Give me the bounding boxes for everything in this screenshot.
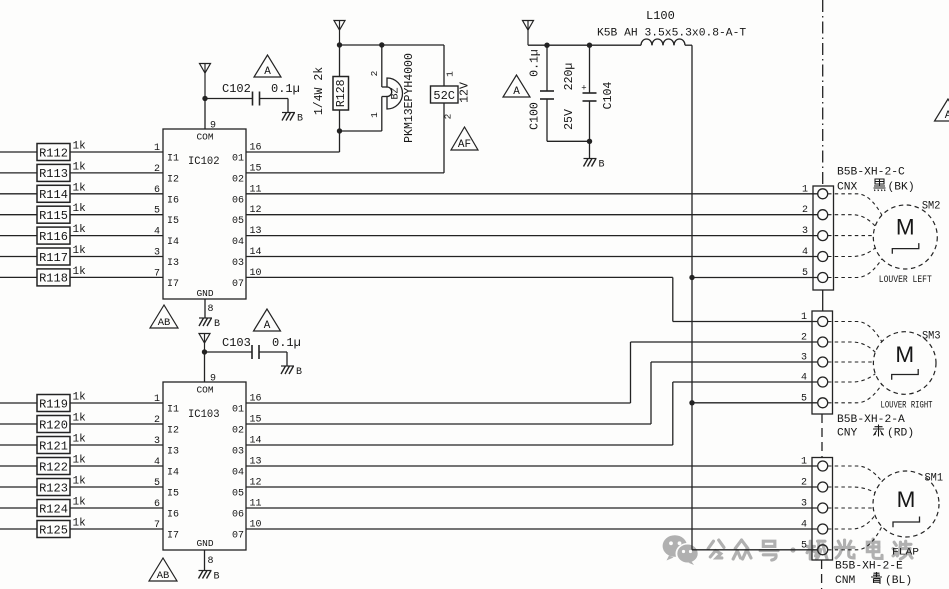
label pin 2 of 52C xyxy=(443,113,454,119)
svg-text:R121: R121 xyxy=(39,439,68,453)
svg-text:I5: I5 xyxy=(167,216,179,227)
label 1k of R124 xyxy=(73,497,87,509)
inductor L100 xyxy=(641,39,692,45)
label 1k of R114 xyxy=(73,182,87,194)
CNY pin 5 number xyxy=(801,393,807,404)
svg-text:LOUVER RIGHT: LOUVER RIGHT xyxy=(881,401,933,412)
svg-text:2: 2 xyxy=(369,70,380,76)
ground C104 xyxy=(584,159,605,171)
wire resistor R114 to IC102 pin 6 xyxy=(70,193,163,195)
svg-text:04: 04 xyxy=(232,468,244,479)
IC103 pin label 02 xyxy=(232,415,262,437)
svg-text:I2: I2 xyxy=(167,174,179,185)
svg-text:R119: R119 xyxy=(39,397,68,411)
label 1k of R123 xyxy=(73,476,87,488)
IC102 pin label I1 xyxy=(154,143,179,165)
connector CNX xyxy=(813,186,834,290)
svg-text:GND: GND xyxy=(196,538,213,549)
svg-text:5: 5 xyxy=(801,393,807,404)
label CNY red xyxy=(837,425,914,440)
svg-text:1k: 1k xyxy=(73,455,87,467)
svg-text:PKM13EPYH4000: PKM13EPYH4000 xyxy=(403,53,416,143)
wire input row to resistor R125 xyxy=(0,528,37,530)
IC103 pin label I2 xyxy=(154,415,179,437)
watermark text guang xyxy=(835,540,854,558)
wire IC102 output 04 to CNX pin 3 xyxy=(246,235,818,237)
CNY pin 4 number xyxy=(801,373,807,384)
wire input row to resistor R113 xyxy=(0,172,37,174)
svg-text:AF: AF xyxy=(458,139,471,151)
svg-text:I3: I3 xyxy=(167,258,179,269)
IC103 pin label I7 xyxy=(154,520,179,542)
svg-text:I7: I7 xyxy=(167,531,179,542)
wire resistor R121 to IC103 pin 3 xyxy=(70,444,163,446)
svg-text:R116: R116 xyxy=(39,230,68,244)
note triangle AF near 52C xyxy=(451,127,478,151)
svg-text:K5B AH 3.5x5.3x0.8-A-T: K5B AH 3.5x5.3x0.8-A-T xyxy=(597,28,746,40)
node C100 top junction xyxy=(544,43,549,48)
svg-text:I6: I6 xyxy=(167,510,179,521)
svg-text:I4: I4 xyxy=(167,468,179,479)
label LOUVER LEFT xyxy=(879,275,932,286)
label 1k of R113 xyxy=(73,161,87,173)
IC102 pin label 06 xyxy=(232,184,262,206)
svg-text:4: 4 xyxy=(801,520,807,531)
resistor R115 xyxy=(37,206,70,223)
svg-text:1k: 1k xyxy=(73,182,87,194)
connector CNM xyxy=(812,458,833,561)
wire IC102 pin 8 to ground xyxy=(204,299,206,318)
wire input row to resistor R124 xyxy=(0,507,37,509)
label B5B-XH-2-A xyxy=(837,414,905,426)
svg-text:+: + xyxy=(581,84,586,94)
svg-text:05: 05 xyxy=(232,216,244,227)
wire input row to resistor R119 xyxy=(0,402,37,404)
IC IC102 body xyxy=(163,129,246,299)
node bus to CNX pin5 xyxy=(689,275,694,280)
label C100 xyxy=(529,102,542,130)
label pin 2 of BZ xyxy=(369,70,380,76)
svg-text:1k: 1k xyxy=(73,476,87,488)
IC103 pin label I3 xyxy=(154,436,179,458)
svg-text:C100: C100 xyxy=(529,102,542,130)
note triangle A at right edge xyxy=(935,99,949,122)
wire bus to CNX pin 5 xyxy=(692,277,818,279)
IC102 pin label 01 xyxy=(232,143,262,165)
wire resistor R125 to IC103 pin 7 xyxy=(70,528,163,530)
wire IC103 output 02 to CNY pin 3 xyxy=(246,362,817,424)
label 0.1u C100 xyxy=(529,49,542,77)
IC102 pin label I3 xyxy=(154,248,179,270)
resistor R113 xyxy=(37,164,70,181)
wire resistor R113 to IC102 pin 2 xyxy=(70,172,163,174)
svg-text:(RD): (RD) xyxy=(887,428,914,440)
CNX pin 5 number xyxy=(802,268,808,279)
wire R128 bottom to IC102 output 01 xyxy=(246,131,340,152)
wire resistor R116 to IC102 pin 4 xyxy=(70,235,163,237)
svg-text:M: M xyxy=(897,487,916,512)
svg-text:9: 9 xyxy=(210,121,216,132)
label 1k of R122 xyxy=(73,455,87,467)
svg-text:GND: GND xyxy=(196,288,213,299)
svg-text:L100: L100 xyxy=(646,9,675,23)
wire resistor R112 to IC102 pin 1 xyxy=(70,151,163,153)
wire IC103 output 06 to CNM pin 3 xyxy=(246,507,817,509)
wire 52C to IC102 output 02 xyxy=(246,172,444,174)
wire input row to resistor R122 xyxy=(0,465,37,467)
svg-text:4: 4 xyxy=(802,247,808,258)
svg-text:1k: 1k xyxy=(73,224,87,236)
svg-text:1k: 1k xyxy=(73,434,87,446)
svg-text:I1: I1 xyxy=(167,405,179,416)
svg-text:B: B xyxy=(297,114,303,125)
svg-text:B: B xyxy=(599,160,605,171)
IC102 pin label 04 xyxy=(232,226,262,248)
svg-text:03: 03 xyxy=(232,447,244,458)
svg-text:04: 04 xyxy=(232,237,244,248)
note triangle AB below IC103 xyxy=(149,558,177,582)
IC102 pin 8 label xyxy=(208,304,214,315)
label 1k of R118 xyxy=(73,266,87,278)
svg-text:I4: I4 xyxy=(167,237,179,248)
wire bus to CNY pin 5 xyxy=(692,402,817,404)
wire input row to resistor R123 xyxy=(0,486,37,488)
capacitor C103 xyxy=(205,345,288,366)
label 12V xyxy=(459,82,472,103)
IC103 pin label 01 xyxy=(232,394,262,416)
capacitor C100 xyxy=(540,45,554,141)
svg-text:B5B-XH-2-E: B5B-XH-2-E xyxy=(835,561,903,573)
svg-text:07: 07 xyxy=(232,279,244,290)
svg-text:1k: 1k xyxy=(73,392,87,404)
svg-text:I3: I3 xyxy=(167,447,179,458)
resistor R116 xyxy=(37,227,70,244)
svg-text:1: 1 xyxy=(369,112,380,118)
label LOUVER RIGHT xyxy=(881,401,933,412)
IC103 pin label 03 xyxy=(232,436,262,458)
node C104 top junction xyxy=(587,43,592,48)
boundary dash line below CNM xyxy=(821,560,823,589)
svg-text:CNX: CNX xyxy=(837,182,858,194)
IC103 pin label 05 xyxy=(232,478,262,500)
svg-text:COM: COM xyxy=(196,385,213,396)
svg-text:A: A xyxy=(264,320,271,332)
svg-text:1k: 1k xyxy=(73,203,87,215)
note triangle A near C102 xyxy=(254,55,281,78)
resistor R119 xyxy=(37,395,70,412)
svg-text:07: 07 xyxy=(232,531,244,542)
IC103 pin label I4 xyxy=(154,457,179,479)
svg-text:1k: 1k xyxy=(73,141,87,153)
wire input row to resistor R121 xyxy=(0,444,37,446)
svg-text:2: 2 xyxy=(801,333,807,344)
svg-text:C102: C102 xyxy=(222,82,251,96)
supply arrow above C100 rail xyxy=(523,21,534,46)
watermark text hao xyxy=(760,541,778,560)
wire input row to resistor R114 xyxy=(0,193,37,195)
svg-text:1/4W 2k: 1/4W 2k xyxy=(313,67,326,115)
boundary dash-dot line top xyxy=(822,0,824,186)
IC102 pin label 07 xyxy=(232,268,262,290)
svg-text:I6: I6 xyxy=(167,195,179,206)
label 1k of R112 xyxy=(73,141,87,153)
svg-text:0.1µ: 0.1µ xyxy=(271,82,300,96)
svg-text:2: 2 xyxy=(801,478,807,489)
watermark text gong xyxy=(708,540,724,558)
wire IC103 pin 8 to ground xyxy=(204,550,206,571)
svg-text:(BK): (BK) xyxy=(888,182,915,194)
svg-text:1k: 1k xyxy=(73,497,87,509)
svg-text:3: 3 xyxy=(801,353,807,364)
node BZ top junction xyxy=(379,42,384,47)
svg-text:BZ: BZ xyxy=(391,87,402,99)
CNM pin 4 number xyxy=(801,520,807,531)
node C104 bottom junction xyxy=(587,139,592,144)
IC103 pin label 06 xyxy=(232,499,262,521)
IC103 pin label I5 xyxy=(154,478,179,500)
label PKM13EPYH4000 xyxy=(403,53,416,143)
motor SM1 leads xyxy=(828,466,882,550)
wire resistor R119 to IC103 pin 1 xyxy=(70,402,163,404)
svg-text:1: 1 xyxy=(801,457,807,468)
wire resistor R123 to IC103 pin 5 xyxy=(70,486,163,488)
wire input row to resistor R120 xyxy=(0,423,37,425)
svg-text:01: 01 xyxy=(232,405,244,416)
svg-text:5: 5 xyxy=(802,268,808,279)
CNX pin 2 number xyxy=(802,205,808,216)
svg-text:A: A xyxy=(945,110,949,122)
wire IC103 output 05 to CNM pin 2 xyxy=(246,486,817,488)
CNM pin 1 number xyxy=(801,457,807,468)
label 1k of R115 xyxy=(73,203,87,215)
label 1k of R121 xyxy=(73,434,87,446)
svg-text:52C: 52C xyxy=(433,89,455,103)
IC103 pin 9 label xyxy=(210,374,216,385)
buzzer BZ xyxy=(340,45,403,131)
svg-text:5: 5 xyxy=(801,540,807,551)
svg-text:2: 2 xyxy=(443,113,454,119)
svg-text:SM3: SM3 xyxy=(922,331,941,343)
resistor R117 xyxy=(37,248,70,265)
node COM IC102 junction xyxy=(202,96,207,101)
supply arrow above R128 xyxy=(334,21,345,46)
wire COM node to IC102 pin 9 xyxy=(204,99,206,130)
CNX pin 3 number xyxy=(802,226,808,237)
wire IC102 output 06 to CNX pin 1 xyxy=(246,193,818,195)
label C103 xyxy=(222,336,251,350)
wire input row to resistor R116 xyxy=(0,235,37,237)
svg-text:8: 8 xyxy=(208,556,214,567)
resistor R120 xyxy=(37,416,70,433)
wire IC103 output 03 to CNY pin 4 xyxy=(246,382,817,445)
svg-text:1k: 1k xyxy=(73,413,87,425)
motor SM2 leads xyxy=(828,194,882,278)
wire resistor R118 to IC102 pin 7 xyxy=(70,276,163,278)
svg-text:CNM: CNM xyxy=(835,575,856,587)
IC102 pin label 05 xyxy=(232,205,262,227)
wire IC103 output 07 to CNM pin 4 xyxy=(246,528,817,530)
node COM IC103 junction xyxy=(202,349,207,354)
label CNX black xyxy=(837,179,915,194)
label pin 1 of 52C xyxy=(445,71,456,77)
wire resistor R115 to IC102 pin 5 xyxy=(70,214,163,216)
svg-text:R117: R117 xyxy=(39,251,68,265)
svg-text:0.1µ: 0.1µ xyxy=(272,336,301,350)
resistor R125 xyxy=(37,521,70,538)
svg-text:IC103: IC103 xyxy=(188,409,220,421)
watermark text dian xyxy=(867,539,882,558)
svg-text:1k: 1k xyxy=(73,266,87,278)
svg-text:R122: R122 xyxy=(39,460,68,474)
wire input row to resistor R112 xyxy=(0,151,37,153)
IC103 pin label I1 xyxy=(154,394,179,416)
label L100 value xyxy=(597,28,746,40)
svg-text:12V: 12V xyxy=(459,82,472,103)
CNY pin 3 number xyxy=(801,353,807,364)
connector CNY xyxy=(812,311,833,414)
wire IC102 output 03 to CNX pin 4 xyxy=(246,256,818,258)
boundary dash line CNY to CNM xyxy=(821,414,823,458)
ground IC102 pin8 xyxy=(199,318,220,330)
wire input row to resistor R118 xyxy=(0,276,37,278)
label 1k of R117 xyxy=(73,245,87,257)
wire bus to CNM pin 5 xyxy=(692,549,817,551)
IC102 pin 9 label xyxy=(210,121,216,132)
watermark text bo xyxy=(893,541,912,559)
svg-text:01: 01 xyxy=(232,154,244,165)
label pin 1 of BZ xyxy=(369,112,380,118)
IC103 pin 8 label xyxy=(208,556,214,567)
IC102 pin label 03 xyxy=(232,247,262,269)
supply arrow above C102 node xyxy=(200,64,211,99)
svg-text:02: 02 xyxy=(232,174,244,185)
watermark dot xyxy=(790,547,795,552)
svg-text:A: A xyxy=(513,86,520,98)
resistor R123 xyxy=(37,479,70,496)
CNY pin 1 number xyxy=(801,312,807,323)
svg-text:1k: 1k xyxy=(73,518,87,530)
resistor R118 xyxy=(37,269,70,286)
resistor R121 xyxy=(37,437,70,454)
CNY pin 2 number xyxy=(801,333,807,344)
note triangle AB below IC102 xyxy=(150,305,178,329)
IC103 pin label 04 xyxy=(232,457,262,479)
supply arrow above C103 node xyxy=(199,334,210,353)
label 1k of R116 xyxy=(73,224,87,236)
label B5B-XH-2-E xyxy=(835,561,903,573)
svg-text:B: B xyxy=(296,367,302,378)
CNM pin 2 number xyxy=(801,478,807,489)
capacitor C102 xyxy=(205,92,288,113)
svg-text:2: 2 xyxy=(802,205,808,216)
svg-text:R114: R114 xyxy=(39,188,68,202)
resistor R122 xyxy=(37,458,70,475)
svg-text:C103: C103 xyxy=(222,336,251,350)
svg-text:I2: I2 xyxy=(167,426,179,437)
label 0.1u C103 xyxy=(272,336,301,350)
motor SM1 xyxy=(873,471,939,537)
node R128 top junction xyxy=(337,42,342,47)
svg-text:B5B-XH-2-A: B5B-XH-2-A xyxy=(837,414,905,426)
IC102 pin label 02 xyxy=(232,163,262,185)
wire resistor R120 to IC103 pin 2 xyxy=(70,423,163,425)
wire 12V bus vertical xyxy=(691,45,693,550)
motor SM2 xyxy=(873,205,937,269)
CNX pin 1 number xyxy=(802,184,808,195)
svg-text:B: B xyxy=(214,572,220,583)
svg-text:03: 03 xyxy=(232,258,244,269)
CNM pin 5 number xyxy=(801,540,807,551)
label 25V C104 xyxy=(563,109,576,130)
label CNM blue xyxy=(835,572,912,587)
svg-text:06: 06 xyxy=(232,195,244,206)
svg-text:I7: I7 xyxy=(167,279,179,290)
note triangle A near C100 xyxy=(503,75,530,98)
svg-text:1: 1 xyxy=(445,71,456,77)
ground IC103 pin8 xyxy=(199,571,220,583)
motor SM3 xyxy=(873,332,936,395)
wire resistor R117 to IC102 pin 3 xyxy=(70,256,163,258)
label SM3 xyxy=(922,331,941,343)
svg-text:LOUVER LEFT: LOUVER LEFT xyxy=(879,275,932,286)
svg-text:SM1: SM1 xyxy=(925,473,944,485)
node bus to CNY pin5 xyxy=(689,400,694,405)
watermark text ji xyxy=(807,541,827,559)
label SM2 xyxy=(922,201,941,213)
svg-text:CNY: CNY xyxy=(837,428,858,440)
svg-text:C104: C104 xyxy=(602,82,615,110)
svg-text:FLAP: FLAP xyxy=(892,547,919,559)
svg-text:02: 02 xyxy=(232,426,244,437)
resistor R114 xyxy=(37,185,70,202)
label L100 xyxy=(646,9,675,23)
svg-text:R120: R120 xyxy=(39,418,68,432)
svg-text:R124: R124 xyxy=(39,502,68,516)
svg-text:220µ: 220µ xyxy=(563,63,576,91)
svg-text:R112: R112 xyxy=(39,146,68,160)
watermark wechat icon xyxy=(663,535,700,565)
wire IC102 output 07 to CNY pin 1 xyxy=(246,277,817,321)
wire C100 C104 bottom rail xyxy=(547,140,590,142)
wire input row to resistor R115 xyxy=(0,214,37,216)
svg-text:B: B xyxy=(214,319,220,330)
svg-text:1k: 1k xyxy=(73,161,87,173)
label SM1 xyxy=(925,473,944,485)
IC102 pin label I7 xyxy=(154,268,179,290)
ground C102 xyxy=(282,113,303,125)
svg-text:3: 3 xyxy=(801,499,807,510)
svg-text:SM2: SM2 xyxy=(922,201,941,213)
IC103 pin label 07 xyxy=(232,520,262,542)
wire COM node to IC103 pin 9 xyxy=(204,352,206,382)
watermark text zhong xyxy=(733,540,751,559)
svg-text:M: M xyxy=(895,342,914,367)
svg-text:R115: R115 xyxy=(39,209,68,223)
svg-text:AB: AB xyxy=(157,570,170,582)
svg-text:R123: R123 xyxy=(39,481,68,495)
label C104 xyxy=(602,82,615,110)
wire IC102 output 05 to CNX pin 2 xyxy=(246,214,818,216)
wire supply top rail xyxy=(528,44,641,46)
svg-text:R125: R125 xyxy=(39,523,68,537)
wire buzzer top rail xyxy=(340,44,445,46)
label 1k of R125 xyxy=(73,518,87,530)
resistor R112 xyxy=(37,144,70,161)
wire resistor R122 to IC103 pin 4 xyxy=(70,465,163,467)
label 1/4W 2k of R128 xyxy=(313,67,326,115)
wire IC103 output 04 to CNM pin 1 xyxy=(246,465,817,467)
label 1k of R120 xyxy=(73,413,87,425)
